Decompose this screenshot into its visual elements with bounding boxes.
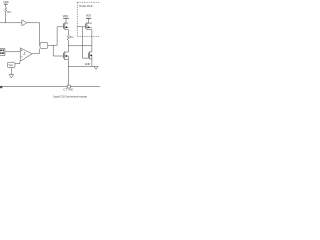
svg-text:GND: GND <box>85 63 91 66</box>
svg-text:VREF: VREF <box>9 65 14 67</box>
svg-text:Copyright © 2016, Texas Instru: Copyright © 2016, Texas Instruments Inco… <box>53 95 87 99</box>
svg-text:VDD: VDD <box>86 15 91 18</box>
svg-text:CT / NC: CT / NC <box>63 88 73 92</box>
svg-text:Push-Pull: Push-Pull <box>79 4 92 8</box>
svg-text:VDD: VDD <box>63 15 68 18</box>
svg-text:VDD: VDD <box>3 1 8 4</box>
